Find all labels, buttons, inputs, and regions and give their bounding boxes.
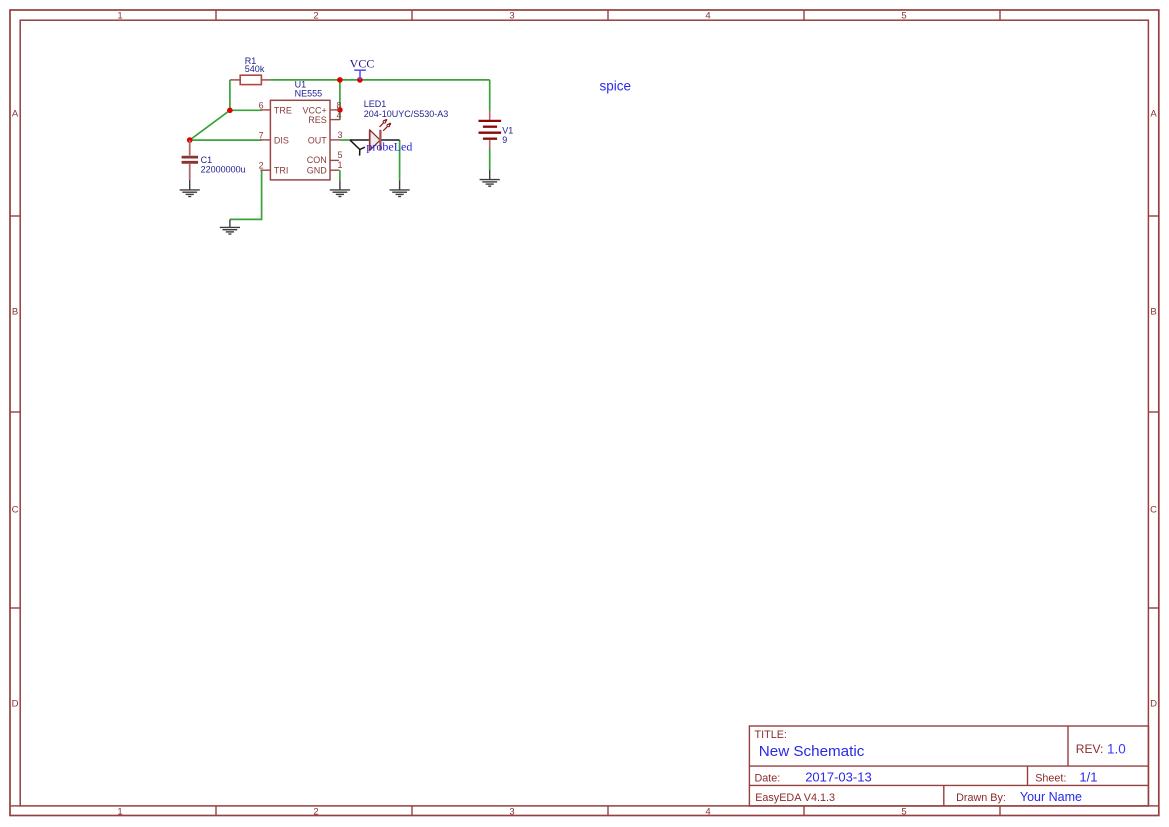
ground below LED [390, 180, 410, 196]
svg-text:C: C [1150, 505, 1157, 516]
wire pin1 GND down [339, 170, 341, 180]
capacitor C1 [182, 140, 199, 180]
pin 4 RES [330, 119, 340, 121]
wire VCC rail to pin8 and pin4 [339, 80, 341, 120]
svg-text:2: 2 [259, 161, 264, 171]
svg-text:1: 1 [117, 807, 122, 818]
pin 3 OUT [330, 139, 340, 141]
junction dot VCC symbol [357, 77, 363, 83]
resistor R1 [230, 75, 270, 84]
svg-text:8: 8 [337, 101, 342, 111]
wire pin3 OUT to LED [340, 139, 350, 141]
title block row line 1 [749, 765, 1148, 767]
pin 8 VCC+ [330, 109, 340, 111]
svg-text:TRI: TRI [274, 165, 289, 175]
svg-text:4: 4 [705, 10, 710, 21]
svg-text:3: 3 [509, 10, 514, 21]
wire TRE junction to pin6 [230, 109, 262, 111]
wire VCC rail top [270, 79, 490, 81]
svg-text:3: 3 [338, 130, 343, 140]
svg-text:7: 7 [259, 130, 264, 140]
wire diagonal TRE to DIS junction [190, 110, 230, 140]
battery V1 [479, 111, 502, 149]
pin 5 CON [330, 159, 339, 161]
title block divider REV [1067, 726, 1069, 766]
svg-text:2: 2 [313, 807, 318, 818]
svg-text:4: 4 [337, 110, 342, 120]
svg-text:OUT: OUT [308, 135, 328, 145]
ground below pin1 GND [330, 180, 350, 196]
title block divider Drawn By [943, 785, 945, 806]
svg-text:GND: GND [307, 165, 328, 175]
svg-text:VCC: VCC [350, 57, 375, 71]
svg-text:5: 5 [901, 807, 906, 818]
wire pin2 TRI to ground [230, 170, 262, 219]
svg-text:D: D [1150, 699, 1157, 710]
pin 6 TRE [260, 109, 270, 111]
svg-text:NE555: NE555 [295, 88, 323, 98]
svg-text:B: B [12, 307, 18, 318]
svg-text:1: 1 [338, 160, 343, 170]
junction dot TRE node [227, 108, 233, 114]
svg-text:540k: 540k [245, 64, 265, 74]
svg-text:TITLE:: TITLE: [755, 729, 787, 741]
wire DIS junction to pin7 [190, 139, 262, 141]
frame column labels bottom [117, 807, 906, 818]
svg-text:3: 3 [509, 807, 514, 818]
frame row ticks right [1148, 216, 1158, 608]
svg-text:5: 5 [901, 10, 906, 21]
frame row ticks left [10, 216, 20, 608]
title block outline [749, 726, 1148, 806]
svg-text:2017-03-13: 2017-03-13 [805, 769, 872, 784]
wire battery bottom to ground [489, 149, 491, 171]
svg-text:probeLed: probeLed [366, 140, 412, 154]
probe probeLed [350, 140, 365, 156]
frame column ticks top [216, 10, 1000, 20]
ground below V1 [480, 170, 500, 186]
wire VCC rail to battery top [489, 80, 491, 111]
junction dot VCC rail pin8 branch [337, 77, 343, 83]
svg-text:VCC+: VCC+ [303, 105, 327, 115]
svg-text:1.0: 1.0 [1107, 742, 1126, 757]
title block row line 2 [749, 784, 1148, 786]
svg-text:B: B [1150, 307, 1156, 318]
frame row labels left [12, 109, 19, 710]
pin 1 GND [330, 169, 339, 171]
svg-text:spice: spice [600, 78, 632, 93]
svg-text:A: A [1150, 109, 1157, 120]
svg-text:Drawn By:: Drawn By: [956, 792, 1006, 804]
svg-text:6: 6 [259, 100, 264, 110]
LED LED1 [350, 119, 400, 150]
title block divider Sheet [1027, 766, 1029, 785]
svg-text:1/1: 1/1 [1079, 769, 1097, 784]
svg-text:EasyEDA V4.1.3: EasyEDA V4.1.3 [755, 792, 835, 804]
svg-text:V1: V1 [502, 125, 513, 135]
svg-text:REV:: REV: [1076, 742, 1104, 756]
svg-text:A: A [12, 109, 19, 120]
svg-text:Date:: Date: [755, 772, 781, 784]
svg-text:204-10UYC/S530-A3: 204-10UYC/S530-A3 [364, 109, 449, 119]
ground below pin2 TRI [220, 219, 240, 234]
wire R1 left to TRE junction [229, 80, 231, 110]
svg-text:TRE: TRE [274, 105, 292, 115]
svg-text:New Schematic: New Schematic [759, 743, 865, 760]
svg-text:5: 5 [338, 150, 343, 160]
svg-text:Sheet:: Sheet: [1035, 772, 1066, 784]
svg-text:4: 4 [705, 807, 710, 818]
junction dot DIS node [187, 137, 193, 143]
frame row labels right [1150, 109, 1157, 710]
wire LED cathode to ground [399, 140, 401, 180]
svg-text:CON: CON [307, 155, 327, 165]
junction dot pin8 [337, 107, 343, 113]
frame column labels top [117, 10, 906, 21]
svg-text:C: C [12, 505, 19, 516]
op-amp U1 body NE555 [270, 100, 330, 180]
frame corner stubs bottom [10, 805, 1159, 807]
svg-text:22000000u: 22000000u [201, 164, 246, 174]
svg-text:LED1: LED1 [364, 99, 387, 109]
svg-text:Your Name: Your Name [1020, 790, 1082, 804]
pin 7 DIS [260, 139, 270, 141]
svg-text:2: 2 [313, 10, 318, 21]
ground below C1 [180, 180, 200, 197]
frame column ticks bottom [216, 806, 1000, 816]
svg-text:RES: RES [308, 115, 327, 125]
svg-text:DIS: DIS [274, 135, 289, 145]
svg-text:1: 1 [117, 10, 122, 21]
svg-text:9: 9 [502, 135, 507, 145]
net flag VCC [350, 57, 375, 80]
pin 2 TRI [260, 169, 270, 171]
svg-text:D: D [12, 699, 19, 710]
